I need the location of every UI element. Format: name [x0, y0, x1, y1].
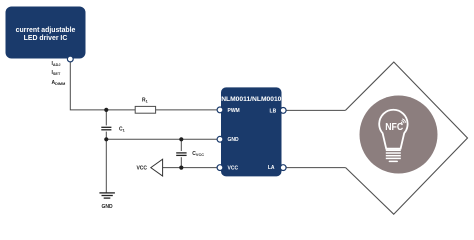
capacitor CVCC [175, 151, 204, 157]
wire: CVCC branch vertical [180, 139, 182, 167]
pin LA [268, 165, 286, 171]
junction: GND rail / CVCC [179, 137, 183, 141]
pin GND [217, 136, 239, 143]
block: current adjustable LED driver IC [6, 7, 86, 59]
svg-text:VCC: VCC [228, 166, 239, 172]
svg-text:GND: GND [101, 204, 113, 210]
svg-text:LA: LA [268, 165, 275, 171]
VCC supply symbol [136, 159, 162, 176]
NFC tag icon [360, 96, 438, 174]
ground [99, 193, 115, 210]
svg-text:current adjustable: current adjustable [16, 27, 76, 34]
resistor R1 [135, 97, 155, 113]
pin LB [270, 108, 287, 115]
svg-text:VCC: VCC [136, 166, 147, 172]
svg-text:NLM0011/NLM0010: NLM0011/NLM0010 [221, 96, 281, 103]
pin PWM [217, 107, 240, 114]
svg-text:ISET: ISET [52, 70, 61, 76]
svg-text:ADIMM: ADIMM [52, 80, 66, 86]
IC U1 NLM0011/NLM0010 [221, 87, 282, 176]
svg-text:LED driver IC: LED driver IC [24, 35, 68, 42]
svg-text:R1: R1 [142, 97, 148, 103]
svg-text:GND: GND [228, 137, 240, 143]
junction: GND rail / C1 [104, 137, 108, 141]
junction: PWM rail / C1 [104, 108, 108, 112]
antenna loop diamond [345, 62, 467, 214]
junction: VCC rail / CVCC [179, 166, 183, 170]
wire: driver output down and right to PWM [70, 59, 219, 110]
wire: GND rail to IC [106, 138, 219, 140]
pin VCC [217, 165, 238, 172]
svg-text:C1: C1 [119, 126, 125, 132]
wire: VCC rail to IC [163, 167, 220, 169]
svg-text:CVCC: CVCC [192, 151, 204, 157]
node: driver output terminal [67, 56, 73, 62]
svg-text:LB: LB [270, 108, 277, 114]
svg-text:NFC: NFC [385, 122, 403, 133]
svg-text:PWM: PWM [228, 108, 240, 114]
wire: C1 branch vertical to ground [105, 110, 107, 193]
capacitor C1 [100, 125, 125, 132]
svg-text:IADJ: IADJ [52, 61, 61, 67]
wire: LB to antenna [283, 109, 345, 111]
wire: LA to antenna [283, 167, 345, 169]
